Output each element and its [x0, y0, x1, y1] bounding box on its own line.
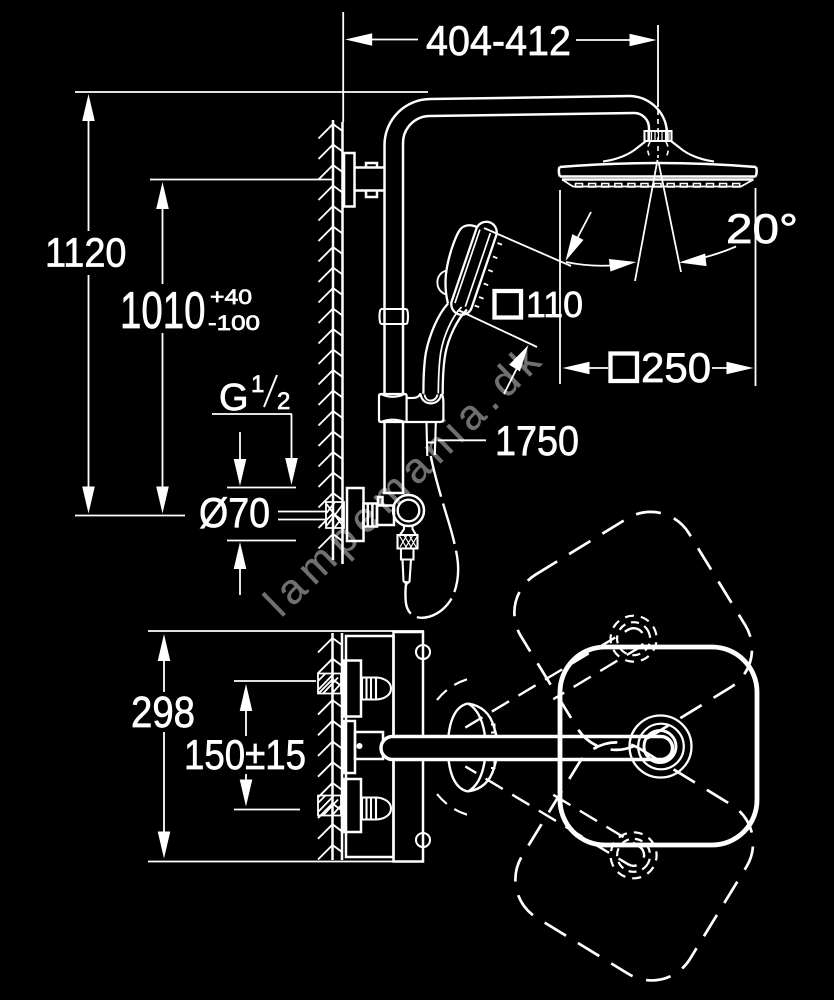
svg-text:110: 110 [526, 284, 583, 325]
svg-text:G: G [219, 377, 249, 419]
dim 1120 [88, 119, 90, 488]
svg-text:404-412: 404-412 [426, 17, 571, 64]
head connector nut [645, 131, 672, 141]
wall hatch lower [318, 638, 342, 860]
leader line from face top [484, 228, 571, 266]
wall bracket arm [355, 163, 385, 197]
spray button [437, 271, 447, 295]
diverter ball [393, 495, 424, 526]
hose loop [405, 456, 458, 618]
valve body lower [394, 632, 424, 862]
svg-text:+40: +40 [210, 286, 252, 309]
dashed flange arc lower [437, 794, 468, 815]
leader line from face bottom [458, 310, 537, 347]
center block [355, 732, 383, 759]
hex nut [364, 504, 378, 527]
port circles [416, 645, 430, 659]
dashed swivel position upper: square [497, 495, 768, 767]
ball joint dashed [648, 110, 669, 158]
nut+dome bottom [362, 798, 376, 820]
rail sleeve connector [380, 309, 409, 324]
svg-text:Ø70: Ø70 [199, 489, 270, 536]
handle [423, 304, 448, 394]
svg-text:1120: 1120 [45, 230, 127, 276]
valve plate lower [346, 636, 394, 857]
ref line 298 top [148, 630, 424, 632]
hand shower head capsule [423, 222, 496, 394]
wall lines lower [333, 633, 343, 860]
head connector bell [603, 141, 714, 162]
hand shower holder socket [407, 394, 444, 422]
escutcheon bottom [344, 779, 361, 832]
head face [562, 180, 754, 187]
ref line 298 bottom [148, 861, 424, 863]
outlet neck [400, 526, 416, 535]
ref line top (1120) [75, 91, 428, 93]
valve body block [377, 506, 394, 526]
svg-text:-100: -100 [208, 312, 260, 335]
wall supply fitting [326, 502, 344, 528]
20deg left extension w/ arrow [570, 212, 591, 252]
1750 leader [438, 439, 486, 441]
escutcheon plate [347, 488, 364, 541]
20deg arc right [685, 247, 736, 262]
hose nut knurled [398, 535, 418, 549]
svg-text:1010: 1010 [120, 282, 206, 340]
ref line valve center [75, 515, 185, 517]
head square top view [560, 647, 757, 845]
hand shower holder left clamp [379, 394, 443, 422]
escutcheon top [344, 661, 361, 717]
head top [559, 163, 757, 177]
dim 298 [163, 659, 165, 833]
wall lines upper [333, 120, 343, 564]
dashed flange arc upper [437, 679, 468, 700]
svg-text:20°: 20° [726, 205, 798, 252]
dim 1010 +40/-100 [162, 206, 164, 488]
dim 404-412 extension left [342, 12, 344, 122]
escutcheon mid [344, 721, 355, 773]
hose connector [401, 549, 414, 585]
dim O70 lines [227, 488, 296, 541]
svg-text:150±15: 150±15 [184, 731, 306, 778]
square110 symbol [495, 291, 522, 318]
dim 404-412 extension right [657, 25, 659, 107]
square250 symbol [611, 354, 638, 382]
shower arm pipe [385, 96, 635, 145]
rail riser [385, 143, 404, 493]
head rim lines [560, 177, 756, 180]
dim 404-412 line + arrows [370, 39, 631, 42]
svg-text:1750: 1750 [495, 417, 579, 464]
svg-text:2: 2 [277, 388, 290, 415]
wall hatch upper [319, 124, 343, 549]
supply squares on wall [318, 674, 341, 694]
ref line bracket (1010) [150, 179, 333, 181]
dashed swivel position upper: arm [459, 607, 665, 756]
swivel flange ring [448, 704, 498, 792]
shower arm bar top view [381, 737, 673, 760]
wall bracket plate [344, 153, 355, 207]
ball top housing [378, 493, 405, 505]
svg-text:250: 250 [641, 344, 711, 391]
nozzle ticks on face [475, 243, 502, 307]
supply stub lines [278, 512, 326, 520]
svg-text:298: 298 [131, 688, 195, 737]
svg-text:1: 1 [251, 371, 264, 398]
dim 250 extensions [560, 188, 756, 386]
20deg arc left [566, 262, 630, 266]
spray lines [635, 160, 681, 281]
dim 150pm15 lines [234, 681, 316, 810]
dashed swivel position lower: arm [459, 738, 665, 887]
dashed swivel position lower: square [499, 726, 770, 998]
hose tail tube [427, 423, 436, 456]
hand shower body [445, 225, 477, 303]
nut+dome top [362, 678, 376, 700]
head pivot circles [630, 716, 692, 778]
